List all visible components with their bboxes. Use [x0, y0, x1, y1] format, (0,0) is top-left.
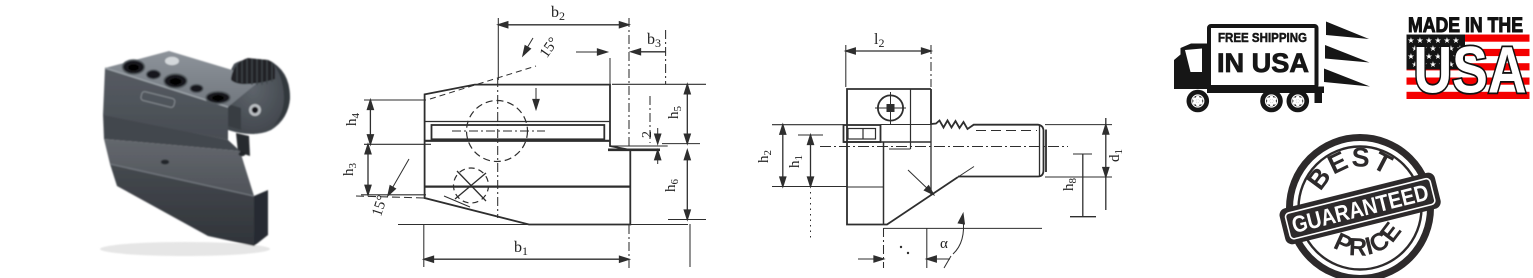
block right hidden edge — [930, 121, 932, 195]
ground shadow — [100, 242, 270, 256]
screw S1 — [123, 60, 145, 74]
dimension l2 — [846, 50, 931, 52]
screw circle — [878, 95, 903, 120]
shank outline with thread zigzag — [931, 89, 1044, 177]
PRICE arc text — [1314, 197, 1418, 266]
dimension d1 — [1105, 118, 1107, 210]
dotted extension below h1 — [810, 192, 812, 238]
dimension b3 — [631, 51, 666, 53]
svg-text:2: 2 — [640, 131, 655, 138]
screw S5 — [190, 85, 203, 93]
slot top line — [425, 121, 610, 123]
svg-text:d1: d1 — [1107, 149, 1125, 162]
15deg bottom leader — [390, 159, 409, 192]
aux top cap — [1073, 153, 1092, 155]
svg-text:h1: h1 — [787, 155, 805, 168]
dimension h2 — [782, 125, 784, 187]
dashed bottom-left slope extension — [356, 196, 425, 198]
h5/2 mid extension — [662, 143, 700, 145]
dimension h1 — [810, 135, 812, 187]
inner ring — [1299, 147, 1422, 270]
svg-text:h3: h3 — [341, 163, 359, 177]
stripes — [1407, 35, 1530, 100]
stars — [1407, 36, 1463, 69]
under-cylinder notch — [236, 133, 250, 156]
cab — [1174, 44, 1208, 90]
screw socket — [887, 104, 895, 112]
b3 right extension dashed — [665, 30, 667, 84]
aux dim line x1083 — [1082, 154, 1084, 217]
screw S2 — [147, 70, 161, 79]
svg-text:15°: 15° — [537, 35, 562, 61]
dashed 15 deg reference line — [430, 66, 536, 99]
top block top face — [105, 51, 262, 107]
svg-text:b1: b1 — [514, 239, 528, 258]
15deg leader arrow — [524, 38, 533, 53]
wheel 3 — [1287, 90, 1310, 113]
small dashed circle — [454, 168, 489, 203]
slot bottom thick line — [425, 140, 610, 142]
svg-text:h5: h5 — [666, 106, 684, 120]
knurl ridges — [237, 59, 272, 85]
vertical centerline — [497, 78, 499, 218]
bottom dimension lines — [858, 258, 950, 260]
b1 right extension — [628, 225, 630, 270]
internal vertical x883 — [883, 142, 885, 225]
dimension 2 arrows — [657, 128, 659, 140]
screw cross horizontal — [875, 107, 906, 109]
svg-text:b3: b3 — [647, 31, 661, 50]
bottom thin line — [398, 224, 688, 226]
dimension b2 — [498, 24, 629, 26]
base hole right — [239, 152, 246, 156]
bottom line y228 — [884, 227, 928, 229]
svg-text:h8: h8 — [1061, 178, 1079, 192]
front-top edge highlight — [105, 68, 228, 107]
step line y187 — [847, 186, 884, 188]
right edge upper extension — [609, 58, 611, 85]
body outline view2 — [847, 89, 958, 225]
screw S6 — [206, 92, 230, 104]
l2 left extension — [845, 45, 847, 87]
boss bottom line — [889, 148, 911, 150]
screw cross vertical — [890, 92, 892, 124]
alpha arc arrow — [953, 218, 964, 254]
top block front face — [103, 68, 228, 140]
made in usa flag — [1407, 14, 1530, 107]
dimension h4 — [369, 100, 371, 144]
svg-text:l2: l2 — [874, 31, 884, 50]
outer ring — [1290, 138, 1431, 278]
d1 bottom extension — [1045, 176, 1112, 178]
shank end outer line — [1045, 130, 1047, 173]
dashed extension for 2 — [649, 96, 651, 143]
knurled band — [231, 58, 275, 84]
horizontal centerline circle — [452, 130, 545, 132]
h4 top extension — [364, 99, 426, 101]
base top face — [104, 139, 254, 196]
dimension h3 — [367, 144, 369, 195]
body outline view1 — [425, 85, 631, 225]
chamfer leader — [908, 170, 931, 192]
h6 bottom extension — [668, 219, 706, 221]
right lower extension — [689, 224, 691, 267]
h2 top extension — [772, 124, 844, 126]
svg-text:h6: h6 — [663, 179, 681, 193]
chassis bar — [1207, 87, 1324, 94]
block right end face — [228, 104, 241, 130]
dimension h5 — [686, 84, 688, 143]
base top edge highlight — [110, 164, 254, 196]
truck logo — [1174, 22, 1370, 113]
h3 bottom extension — [361, 194, 426, 196]
speed wedge 2 — [1325, 45, 1370, 63]
big dashed circle — [467, 101, 528, 162]
h5 top extension — [612, 83, 706, 85]
PHOTO: 3D tool holder — [100, 51, 290, 256]
svg-text:FREE SHIPPING: FREE SHIPPING — [1218, 31, 1307, 45]
DRAWING 2: side view — [756, 31, 1125, 268]
slot pointer arrow — [535, 88, 537, 105]
h1 h2 bottom extension — [772, 186, 847, 188]
l2 right extension dashed — [930, 45, 932, 87]
b2 left extension — [497, 18, 499, 80]
step thin line — [610, 145, 668, 147]
aux bottom cap — [1070, 216, 1096, 218]
side set screw — [249, 104, 261, 116]
svg-text:α: α — [940, 236, 948, 252]
alpha lower tick — [944, 256, 951, 268]
slot bottom line across — [844, 141, 932, 143]
dimension b1 — [424, 258, 629, 260]
d1 top extension — [1045, 124, 1112, 126]
svg-text:IN USA: IN USA — [1217, 48, 1309, 78]
h4 bottom extension — [364, 143, 431, 145]
screw S4 — [164, 74, 187, 88]
diag through small circle — [444, 196, 470, 207]
dimension h6 — [686, 150, 688, 219]
slot screw divider — [862, 129, 864, 140]
shank centerline — [820, 146, 1068, 148]
speed wedge 1 — [1326, 22, 1369, 40]
h1 top extension — [798, 134, 823, 136]
b1 left extension — [423, 225, 425, 267]
bottom left ext — [883, 228, 885, 268]
cross on small circle — [455, 171, 486, 201]
thread minor dashed — [976, 130, 1037, 132]
cargo box — [1209, 26, 1317, 87]
banner — [1278, 171, 1442, 246]
etched logo — [140, 91, 175, 108]
BEST arc text — [1310, 158, 1401, 218]
bottom dim dots — [900, 246, 902, 248]
15deg horizontal arrow — [576, 51, 604, 53]
cylinder shade right — [271, 61, 290, 126]
best price stamp — [1266, 124, 1450, 278]
tail flap — [1315, 87, 1323, 104]
svg-text:USA: USA — [1414, 33, 1527, 107]
bottom right ext — [926, 228, 928, 268]
clamp slot outer rect — [844, 125, 881, 142]
speed wedge 3 — [1324, 69, 1370, 87]
wheel 1 — [1187, 90, 1210, 113]
canton — [1407, 35, 1466, 70]
shank end inner line — [1039, 125, 1041, 176]
wheel 2 — [1260, 90, 1283, 113]
windshield — [1185, 49, 1202, 73]
b2 right extension dashed — [628, 18, 630, 146]
base front face — [110, 164, 254, 246]
svg-text:h4: h4 — [344, 113, 362, 127]
chamfer thin extension — [958, 167, 974, 178]
base right face — [254, 190, 268, 246]
svg-text:b2: b2 — [551, 4, 565, 23]
slot top line to edge — [881, 124, 932, 126]
cylinder mass — [228, 59, 290, 134]
screw boss vertical — [910, 89, 912, 149]
hole S3 — [165, 57, 179, 65]
insert pocket rect — [432, 125, 605, 139]
base hole left — [161, 160, 169, 165]
bottom thin line right — [927, 227, 1042, 229]
clamp slot inner rect — [848, 129, 876, 140]
DRAWING 1: front view — [341, 4, 706, 270]
under-block shadow band — [103, 114, 240, 151]
svg-text:h2: h2 — [756, 150, 774, 163]
mid body line — [425, 186, 631, 188]
step thick line — [608, 149, 660, 152]
